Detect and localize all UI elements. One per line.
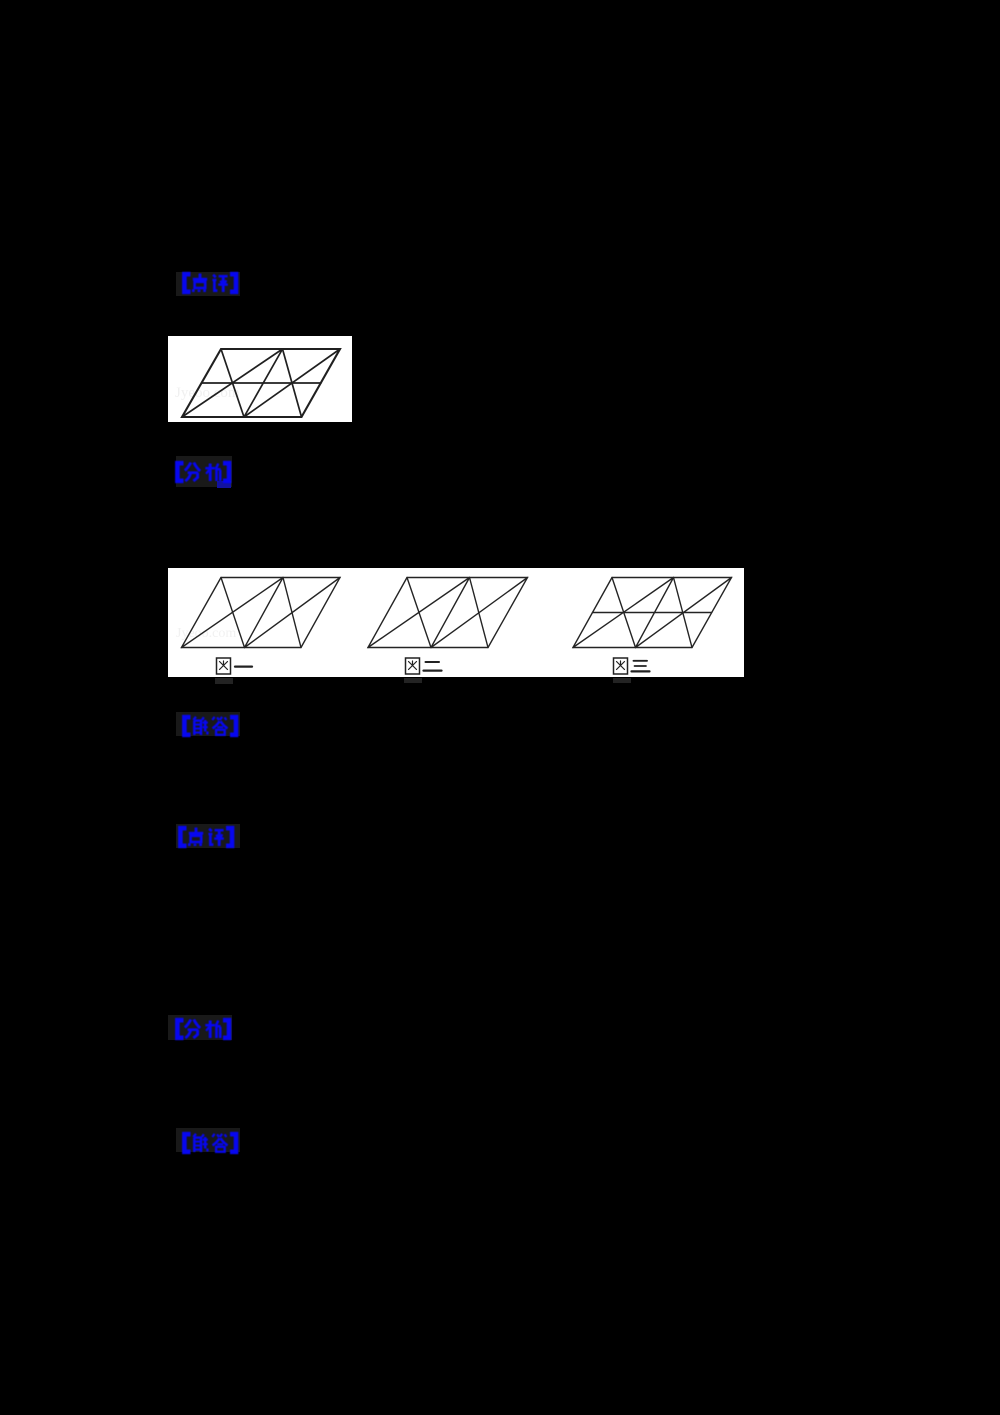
bracket 【 bbox=[180, 828, 186, 846]
parallelogram figure (same as 图三) bbox=[168, 336, 352, 422]
caption 图一 : 一 bar bbox=[235, 665, 252, 667]
glyph 评 bbox=[212, 275, 227, 292]
diagonal BM-TR bbox=[244, 349, 340, 417]
图二 diagonal BM-TR bbox=[431, 578, 528, 648]
bracket 】 bbox=[230, 717, 236, 735]
glyph 点 bbox=[192, 273, 206, 292]
label 【点评】 #1 bbox=[176, 271, 240, 295]
label 【解答】 #2 bbox=[176, 1131, 240, 1155]
glyph 析 bbox=[205, 463, 220, 481]
label highlight box 分析 #2 bbox=[168, 1015, 232, 1040]
图二 diagonal TL-BM bbox=[407, 578, 431, 648]
bracket 【 bbox=[184, 274, 190, 292]
glyph 点 bbox=[189, 828, 203, 847]
glyph 评 bbox=[208, 829, 223, 846]
图三 diagonal TM-BR bbox=[674, 578, 693, 648]
caption 图三 : 三 bars bbox=[634, 660, 648, 662]
label highlight box 点评 #2 bbox=[176, 824, 240, 848]
figure 图一 parallelogram outline bbox=[182, 578, 341, 648]
watermark Jyeoo.com bbox=[176, 626, 236, 642]
glyph 答 bbox=[212, 1134, 227, 1152]
bracket 】 bbox=[230, 1134, 236, 1152]
white figure box 1 bbox=[168, 336, 352, 422]
图二 middle slant TM-BM bbox=[431, 578, 470, 648]
图一 diagonal TM-BR bbox=[283, 578, 301, 648]
cut-off row stub under 图一 bbox=[215, 678, 233, 684]
glyph 答 bbox=[212, 716, 227, 734]
glyph 分 bbox=[184, 462, 199, 481]
cut-off row stub under 图二 bbox=[404, 678, 422, 683]
glyph 解 bbox=[193, 716, 208, 734]
selection remnant under 分析 #1 bbox=[217, 481, 231, 488]
bracket 】 bbox=[226, 828, 232, 846]
bracket 【 bbox=[177, 463, 183, 481]
diagonal TM-BR bbox=[283, 349, 302, 417]
caption 图二 : 二 bars bbox=[426, 661, 440, 663]
caption 图二 : 图 glyph bbox=[406, 658, 442, 674]
图三 middle slant TM-BM bbox=[636, 578, 674, 648]
label 【分析】 #1 bbox=[169, 460, 233, 484]
图三 diagonal BM-TR bbox=[636, 578, 732, 648]
label 【分析】 #2 bbox=[169, 1017, 233, 1041]
figure 图二 parallelogram outline bbox=[368, 578, 528, 648]
图一 middle slant TM-BM bbox=[245, 578, 284, 648]
图一 diagonal BL-TM bbox=[182, 578, 284, 648]
white figure box 2 bbox=[168, 568, 744, 677]
watermark Jyeoo.com bbox=[175, 385, 240, 402]
bracket 【 bbox=[177, 1020, 183, 1038]
label highlight box 解答 #2 bbox=[176, 1128, 240, 1152]
图三 diagonal BL-TM bbox=[573, 578, 674, 648]
图二 diagonal TM-BR bbox=[470, 578, 489, 648]
图三 diagonal TL-BM bbox=[612, 578, 636, 648]
caption 图三 : 图 glyph bbox=[614, 658, 650, 674]
label highlight box 分析 #1 bbox=[176, 456, 232, 487]
bracket 】 bbox=[223, 463, 229, 481]
diagonal BL-TM bbox=[182, 349, 283, 417]
bracket 】 bbox=[230, 274, 236, 292]
cut-off row stub under 图三 bbox=[613, 678, 631, 683]
glyph 解 bbox=[193, 1134, 208, 1152]
figure 图三 parallelogram outline bbox=[573, 578, 732, 648]
glyph 分 bbox=[184, 1019, 199, 1038]
caption 图一 : 图 glyph bbox=[217, 658, 253, 674]
图三 horizontal midline bbox=[593, 612, 712, 614]
label 【解答】 #1 bbox=[176, 714, 240, 738]
horizontal midline bbox=[202, 382, 322, 384]
label 【点评】 #2 bbox=[172, 825, 236, 849]
diagonal TL-BM bbox=[221, 349, 244, 417]
图二 diagonal BL-TM bbox=[368, 578, 470, 648]
图一 diagonal BM-TR bbox=[245, 578, 341, 648]
bracket 【 bbox=[184, 717, 190, 735]
middle slant TM-BM bbox=[244, 349, 283, 417]
bracket 】 bbox=[223, 1020, 229, 1038]
label highlight box 点评 #1 bbox=[176, 272, 240, 296]
图一 diagonal TL-BM bbox=[221, 578, 245, 648]
parallelogram outline bbox=[182, 349, 340, 417]
label highlight box 解答 #1 bbox=[176, 712, 240, 736]
three parallelogram figures 图一 图二 图三 bbox=[168, 568, 744, 677]
bracket 【 bbox=[184, 1134, 190, 1152]
glyph 析 bbox=[205, 1020, 220, 1038]
